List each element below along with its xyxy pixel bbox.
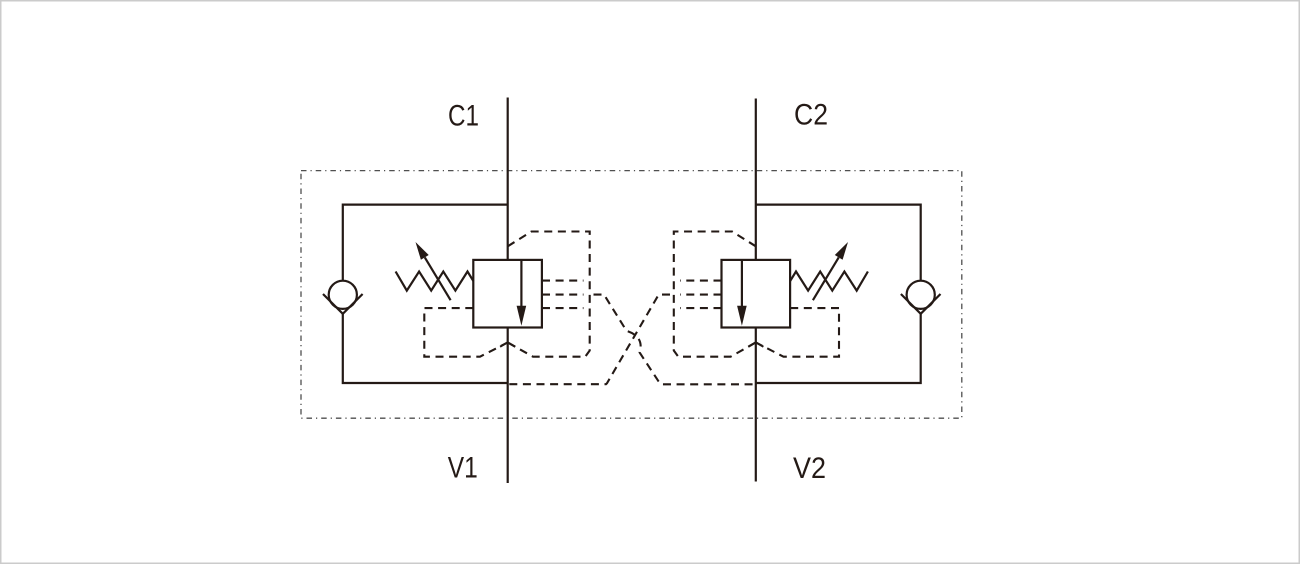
check valve CV1 seat: [323, 294, 363, 314]
counterbalance valve body right: [722, 260, 791, 328]
crossover pilot line from left valve to V2 (with hop): [542, 294, 584, 296]
adjustable spring right: [790, 272, 868, 291]
counterbalance valve body left: [473, 260, 542, 328]
wire C2 main line upper: [755, 99, 757, 260]
flow path arrow inside right valve: [741, 260, 743, 309]
wire C1 main line upper: [507, 98, 509, 260]
flow path arrow inside left valve: [520, 260, 522, 309]
wire left bypass bottom branch: [343, 314, 508, 383]
pilot junction chevron on V2 line: [748, 342, 763, 346]
pilot drain box lower-right of right valve: [756, 308, 839, 357]
adjustment arrow left: [425, 257, 451, 300]
wire V1 main line lower: [507, 328, 509, 484]
adjustable spring left: [396, 272, 474, 291]
pilot stub upper left of right valve: [680, 280, 722, 282]
pilot stub lower left of right valve: [680, 307, 722, 309]
svg-text:V1: V1: [448, 452, 478, 485]
pilot stub upper right of left valve: [542, 280, 584, 282]
valve assembly envelope (dash-dot boundary): [301, 171, 962, 419]
check valve CV2 seat: [901, 294, 941, 314]
crossover pilot line from right valve to V1: [680, 294, 722, 296]
pilot stub lower right of left valve: [542, 307, 584, 309]
svg-text:V2: V2: [793, 452, 826, 485]
check valve CV1 circle: [329, 281, 357, 309]
pilot drain box lower-left of left valve: [424, 308, 507, 357]
pilot line top loop right valve: [674, 232, 756, 357]
wire left bypass top branch: [343, 205, 508, 281]
wire V2 main line lower: [755, 328, 757, 482]
check valve CV2 circle: [907, 281, 935, 309]
pilot junction chevron on V1 line: [500, 342, 515, 346]
svg-text:C1: C1: [448, 100, 479, 133]
wire right bypass bottom branch: [756, 314, 921, 383]
adjustment arrow right: [813, 257, 839, 300]
pilot line top loop left valve: [508, 232, 590, 357]
wire right bypass top branch: [756, 205, 921, 281]
svg-text:C2: C2: [794, 99, 828, 132]
